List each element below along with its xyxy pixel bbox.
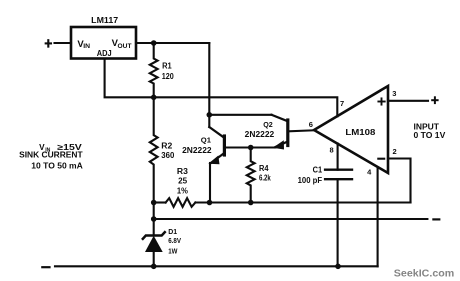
resistor R3 bbox=[166, 198, 196, 207]
value label R4 6.2k bbox=[259, 164, 271, 182]
svg-text:OUT: OUT bbox=[118, 44, 132, 50]
wire Q1 collector stub bbox=[208, 115, 210, 127]
op-amp - input mark bbox=[378, 158, 384, 160]
wire negative reference rail bbox=[154, 218, 428, 220]
pin number 7 bbox=[340, 99, 344, 108]
node Q1 emitter junction bbox=[207, 200, 213, 206]
svg-text:ADJ: ADJ bbox=[97, 48, 112, 58]
pin number 3 bbox=[392, 89, 396, 98]
wire pin 2 feedback loop bbox=[388, 159, 411, 203]
svg-text:D1: D1 bbox=[168, 229, 177, 236]
svg-text:C1: C1 bbox=[313, 165, 323, 174]
svg-text:LM117: LM117 bbox=[91, 16, 119, 25]
terminal - (supply negative) bbox=[42, 266, 49, 268]
regulator U1 LM117 body bbox=[71, 27, 136, 59]
svg-text:INPUT: INPUT bbox=[414, 122, 440, 131]
svg-text:8: 8 bbox=[330, 146, 334, 155]
wire R3 left lead bbox=[154, 201, 166, 203]
pin label ADJ bbox=[97, 48, 112, 58]
node D1 anode junction bbox=[151, 264, 157, 270]
wire pin 3 to input terminal bbox=[388, 100, 428, 102]
svg-text:3: 3 bbox=[392, 89, 396, 98]
value label LM117 bbox=[91, 16, 119, 25]
node R2/R3 junction bbox=[151, 200, 157, 206]
svg-text:120: 120 bbox=[162, 72, 174, 81]
pin number 2 bbox=[393, 147, 397, 156]
svg-text:R3: R3 bbox=[177, 167, 189, 176]
svg-text:10 TO 50 mA: 10 TO 50 mA bbox=[31, 161, 83, 170]
wire pin 4 to negative rail bbox=[377, 168, 379, 267]
svg-text:6.2k: 6.2k bbox=[259, 173, 271, 182]
wire VOUT top rail bbox=[136, 42, 209, 44]
wire pin 8 to C1 bbox=[337, 144, 339, 170]
wire Q1 emitter down bbox=[209, 163, 211, 203]
svg-text:0 TO 1V: 0 TO 1V bbox=[414, 131, 446, 140]
node collector junction bbox=[207, 112, 213, 118]
svg-text:100 pF: 100 pF bbox=[298, 176, 323, 185]
pin number 4 bbox=[367, 167, 372, 176]
label sink current note bbox=[19, 143, 83, 170]
resistor R4 bbox=[247, 148, 255, 202]
op-amp + input mark bbox=[378, 98, 384, 104]
op-amp U2 LM108 bbox=[314, 86, 388, 173]
label LM108 bbox=[345, 128, 376, 137]
svg-text:SINK CURRENT: SINK CURRENT bbox=[19, 151, 83, 160]
svg-text:Q2: Q2 bbox=[263, 120, 273, 129]
node VOUT junction bbox=[151, 40, 157, 46]
label Q1 2N2222 bbox=[182, 135, 212, 155]
terminal + (input positive) bbox=[432, 97, 437, 103]
value label R2 360 bbox=[161, 141, 175, 160]
value label D1 6.8V 1W bbox=[168, 229, 181, 256]
value label R1 120 bbox=[162, 61, 174, 81]
resistor R1 bbox=[150, 43, 158, 97]
wire bottom negative rail bbox=[55, 265, 378, 267]
node zener top junction bbox=[151, 216, 157, 222]
label Q2 2N2222 bbox=[245, 120, 275, 139]
value label C1 100 pF bbox=[298, 165, 323, 185]
svg-text:7: 7 bbox=[340, 99, 344, 108]
terminal - (input negative) bbox=[433, 218, 439, 220]
svg-text:6.8V: 6.8V bbox=[168, 238, 181, 245]
wire zener node drop bbox=[153, 203, 155, 220]
resistor R2 bbox=[150, 97, 158, 202]
node R4 bottom junction bbox=[248, 200, 254, 206]
wire C1 bottom to negative rail bbox=[337, 179, 339, 266]
diode D1 zener bbox=[143, 219, 165, 266]
pin number 8 bbox=[330, 146, 334, 155]
svg-text:25: 25 bbox=[178, 177, 188, 186]
node C1 bottom junction bbox=[335, 264, 341, 270]
svg-text:IN: IN bbox=[83, 44, 90, 50]
svg-text:R2: R2 bbox=[161, 141, 173, 150]
svg-text:R4: R4 bbox=[259, 164, 269, 173]
node ADJ/R1/R2 junction bbox=[151, 95, 157, 101]
capacitor C1 bbox=[325, 170, 352, 180]
wire Q2 base to op-amp output bbox=[289, 130, 314, 131]
label INPUT 0 TO 1V bbox=[414, 122, 446, 140]
watermark SeekIC.com bbox=[394, 269, 455, 280]
svg-text:2: 2 bbox=[393, 147, 397, 156]
terminal + (supply positive input) bbox=[46, 40, 51, 46]
svg-text:LM108: LM108 bbox=[345, 128, 376, 137]
value label R3 25 1% bbox=[177, 167, 189, 196]
node base junction R4 top bbox=[248, 145, 254, 151]
wire collector rail to Q2 bbox=[209, 114, 271, 116]
transistor Q1 bbox=[208, 127, 224, 164]
svg-text:Q1: Q1 bbox=[201, 135, 211, 144]
wire ADJ pin to op-amp pin 7 bbox=[105, 59, 338, 117]
pin label VIN bbox=[77, 39, 90, 50]
svg-text:360: 360 bbox=[161, 151, 175, 160]
transistor Q2 bbox=[272, 115, 288, 150]
svg-text:6: 6 bbox=[309, 120, 313, 129]
svg-text:SeekIC.com: SeekIC.com bbox=[394, 269, 455, 280]
wire vertical drop to Q1/Q2 collectors bbox=[208, 43, 210, 115]
svg-text:2N2222: 2N2222 bbox=[245, 130, 275, 139]
svg-text:1W: 1W bbox=[168, 249, 178, 256]
pin label VOUT bbox=[112, 38, 132, 50]
wire sense line to pin 2 bbox=[195, 201, 410, 203]
wire Q1 base / Q2 emitter rail bbox=[226, 146, 276, 148]
svg-text:2N2222: 2N2222 bbox=[182, 146, 212, 155]
wire bbox=[55, 42, 72, 44]
svg-text:R1: R1 bbox=[162, 61, 172, 70]
pin number 6 bbox=[309, 120, 313, 129]
svg-text:1%: 1% bbox=[177, 186, 188, 195]
